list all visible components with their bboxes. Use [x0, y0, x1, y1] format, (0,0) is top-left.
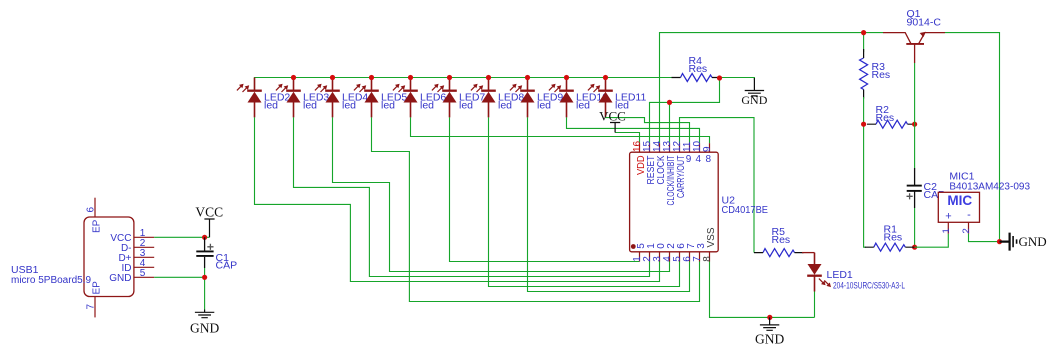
- U2 pin 3 stub: [659, 252, 661, 262]
- wire LED3 to U2 pin 2: [294, 117, 650, 276]
- wire R2 right to Q1 base column: [912, 123, 915, 125]
- wire VCC to U2 pin 16 VDD: [615, 133, 639, 144]
- USB1 pin 5 stub: [134, 276, 154, 278]
- U2 pin 1 marker dot: [631, 244, 636, 249]
- svg-text:Res: Res: [689, 63, 708, 75]
- svg-text:2: 2: [961, 228, 972, 233]
- junction R1 right / C2 / MIC1: [912, 245, 917, 250]
- wire U2 pin 8 VSS to ground rail: [710, 262, 815, 318]
- USB1 EP pin top stub: [94, 198, 96, 217]
- U2 pin 13 stub: [669, 143, 671, 152]
- ground symbol GND right (sideways): [1000, 233, 1017, 251]
- svg-text:8: 8: [706, 154, 712, 165]
- wire U2 pin 12 CARRY/OUT to R5: [680, 118, 755, 253]
- U2 pin 12 stub: [679, 143, 681, 152]
- junction MIC/right rail/GND: [997, 239, 1002, 244]
- U2 pin 8 stub: [709, 252, 711, 262]
- U2 pin 15 stub: [649, 143, 651, 152]
- svg-text:VSS: VSS: [706, 227, 717, 247]
- U2 pin 16 stub: [639, 143, 641, 152]
- svg-text:MIC: MIC: [947, 193, 972, 208]
- wire U2 pin 14 CLOCK to Q1 collector: [660, 33, 884, 144]
- U2 pin 1 stub: [639, 252, 641, 262]
- capacitor C1 (CAP, polarized): [196, 237, 213, 268]
- LED anode top rail: [255, 78, 672, 91]
- svg-text:VCC: VCC: [599, 109, 626, 124]
- svg-text:9014-C: 9014-C: [907, 17, 942, 29]
- junction rail-LED10: [564, 75, 569, 80]
- wire C2 to bottom node: [914, 208, 916, 247]
- resistor R3 (R3): [860, 58, 868, 90]
- junction VCC node: [202, 235, 207, 240]
- wire left column R2 to R1: [864, 124, 866, 247]
- svg-text:5: 5: [140, 268, 146, 279]
- wire LED6 to U2 pin 9: [411, 117, 710, 143]
- LED3 (led): [276, 78, 301, 118]
- svg-text:led: led: [420, 99, 434, 111]
- wire R5 to LED1: [802, 252, 815, 254]
- wire MIC1 pin 2 to GND node: [969, 234, 1000, 242]
- resistor R5 (R5): [763, 249, 794, 257]
- junction rail-LED5: [369, 75, 374, 80]
- wire Q1 emitter to right rail: [945, 33, 1000, 242]
- USB1 pin 4 stub: [134, 266, 154, 268]
- LED7 (led): [432, 78, 457, 118]
- wire C1 to GND: [204, 268, 206, 310]
- svg-text:EP: EP: [91, 281, 102, 295]
- svg-text:9: 9: [686, 154, 692, 165]
- junction R2 left: [861, 122, 866, 127]
- svg-text:led: led: [498, 99, 512, 111]
- LED11 (led): [588, 78, 613, 118]
- wire R3 to R2 node: [863, 97, 865, 124]
- svg-text:GND: GND: [1019, 234, 1047, 249]
- LED4 (led): [315, 78, 340, 118]
- USB1 pin 1 stub: [134, 236, 154, 238]
- wire LED10 to U2 pin 10: [567, 117, 700, 143]
- svg-text:micro 5PBoard5.9: micro 5PBoard5.9: [11, 275, 91, 286]
- svg-text:GND: GND: [109, 273, 131, 284]
- U2 pin 5 stub: [679, 252, 681, 262]
- ground symbol GND bottom: [760, 317, 779, 330]
- svg-text:-: -: [967, 209, 971, 221]
- svg-text:+: +: [945, 211, 951, 223]
- svg-text:8: 8: [702, 256, 713, 262]
- svg-text:GND: GND: [190, 320, 219, 335]
- svg-text:4: 4: [696, 154, 702, 165]
- svg-text:Res: Res: [884, 231, 903, 243]
- LED5 (led): [354, 78, 379, 118]
- wire LED5 to U2 pin 7: [372, 117, 700, 301]
- transistor Q1 9014-C: [883, 32, 945, 63]
- junction rail-LED3: [291, 75, 296, 80]
- svg-text:CAP: CAP: [216, 260, 238, 272]
- svg-text:led: led: [537, 99, 551, 111]
- junction GND node: [202, 275, 207, 280]
- junction rail-LED9: [525, 75, 530, 80]
- svg-text:GND: GND: [741, 93, 767, 107]
- junction R4 right node: [717, 75, 722, 80]
- svg-text:B4013AM423-093: B4013AM423-093: [949, 182, 1030, 193]
- junction R2 right / Q1 base: [912, 122, 917, 127]
- ground symbol GND near R4: [745, 78, 764, 96]
- MIC1 pin 1 stub: [947, 222, 949, 233]
- svg-text:led: led: [459, 99, 473, 111]
- svg-text:led: led: [264, 99, 278, 111]
- power symbol VCC (left): [204, 219, 214, 237]
- U2 pin 4 stub: [669, 252, 671, 262]
- wire LED11 to U2 pin 11: [606, 117, 690, 143]
- svg-text:VCC: VCC: [195, 205, 223, 220]
- svg-text:6: 6: [86, 207, 97, 213]
- power symbol VCC (near U2 VDD): [610, 123, 620, 133]
- junction rail-LED6: [408, 75, 413, 80]
- U2 pin 7 stub: [699, 252, 701, 262]
- LED10 (led): [549, 78, 574, 118]
- U2 pin 9 stub: [709, 143, 711, 152]
- svg-text:led: led: [576, 99, 590, 111]
- junction rail-LED8: [486, 75, 491, 80]
- wire U2 pin 13 branch: [669, 102, 671, 143]
- svg-text:CD4017BE: CD4017BE: [722, 204, 769, 216]
- U2 pin 11 stub: [689, 143, 691, 152]
- svg-text:1: 1: [941, 228, 952, 233]
- wire bottom node to MIC1 pin 1: [915, 234, 949, 248]
- svg-text:Res: Res: [772, 234, 791, 246]
- svg-text:LED1: LED1: [827, 269, 853, 281]
- USB1 EP pin bottom stub: [94, 297, 96, 318]
- wire LED7 to U2 pin 1: [450, 117, 640, 261]
- wire LED2 to U2 pin 3: [255, 117, 660, 281]
- U2 pin 14 stub: [659, 143, 661, 152]
- wire top node to R3: [863, 33, 865, 52]
- MIC1 pin 2 stub: [968, 222, 970, 233]
- wire USB1 GND pin to C1 column: [154, 276, 204, 278]
- USB1 pin 3 stub: [134, 256, 154, 258]
- junction ground rail GND tee: [767, 315, 772, 320]
- LED1 204-10SURC/S530-A3-L: [807, 253, 831, 292]
- connector USB1 micro 5PBoard5.9 body: [84, 217, 134, 297]
- junction rail-LED11: [603, 75, 608, 80]
- junction R3 top: [861, 30, 866, 35]
- svg-text:204-10SURC/S530-A3-L: 204-10SURC/S530-A3-L: [833, 280, 905, 291]
- junction pin13 node: [667, 100, 672, 105]
- microphone MIC1 B4013AM423-093 body: [938, 192, 979, 222]
- wire LED9 to U2 pin 6: [528, 117, 690, 291]
- svg-text:led: led: [342, 99, 356, 111]
- LED8 (led): [471, 78, 496, 118]
- U2 pin 2 stub: [649, 252, 651, 262]
- wire Q1 base down to C2: [914, 63, 916, 168]
- resistor R4 (R4): [681, 74, 712, 82]
- svg-text:9: 9: [702, 146, 713, 152]
- wire LED8 to U2 pin 5: [489, 117, 680, 286]
- resistor R1 (R1): [874, 243, 905, 251]
- junction rail-LED7: [447, 75, 452, 80]
- svg-text:led: led: [303, 99, 317, 111]
- U2 pin 10 stub: [699, 143, 701, 152]
- U2 pin 6 stub: [689, 252, 691, 262]
- LED6 (led): [393, 78, 418, 118]
- capacitor C2 (CAP, polarized): [907, 168, 922, 208]
- LED2 (led): [237, 78, 262, 118]
- op IC U2 CD4017BE body: [630, 152, 719, 252]
- svg-text:Res: Res: [876, 112, 895, 124]
- svg-text:Res: Res: [872, 69, 891, 81]
- svg-text:7: 7: [86, 304, 97, 310]
- svg-text:GND: GND: [755, 331, 784, 346]
- resistor R2 (R2): [876, 120, 907, 128]
- wire USB1 VCC pin to C1/VCC node: [154, 236, 209, 238]
- junction rail-LED4: [330, 75, 335, 80]
- wire U2 pins 15/13 to R4/GND node: [650, 78, 720, 143]
- svg-text:EP: EP: [91, 219, 102, 233]
- USB1 pin 2 stub: [134, 246, 154, 248]
- wire LED4 to U2 pin 4: [333, 117, 670, 271]
- LED9 (led): [510, 78, 535, 118]
- wire LED1 to ground rail: [814, 292, 816, 318]
- ground symbol GND left: [195, 310, 214, 318]
- wire R4 right to GND: [720, 78, 755, 81]
- svg-text:led: led: [381, 99, 395, 111]
